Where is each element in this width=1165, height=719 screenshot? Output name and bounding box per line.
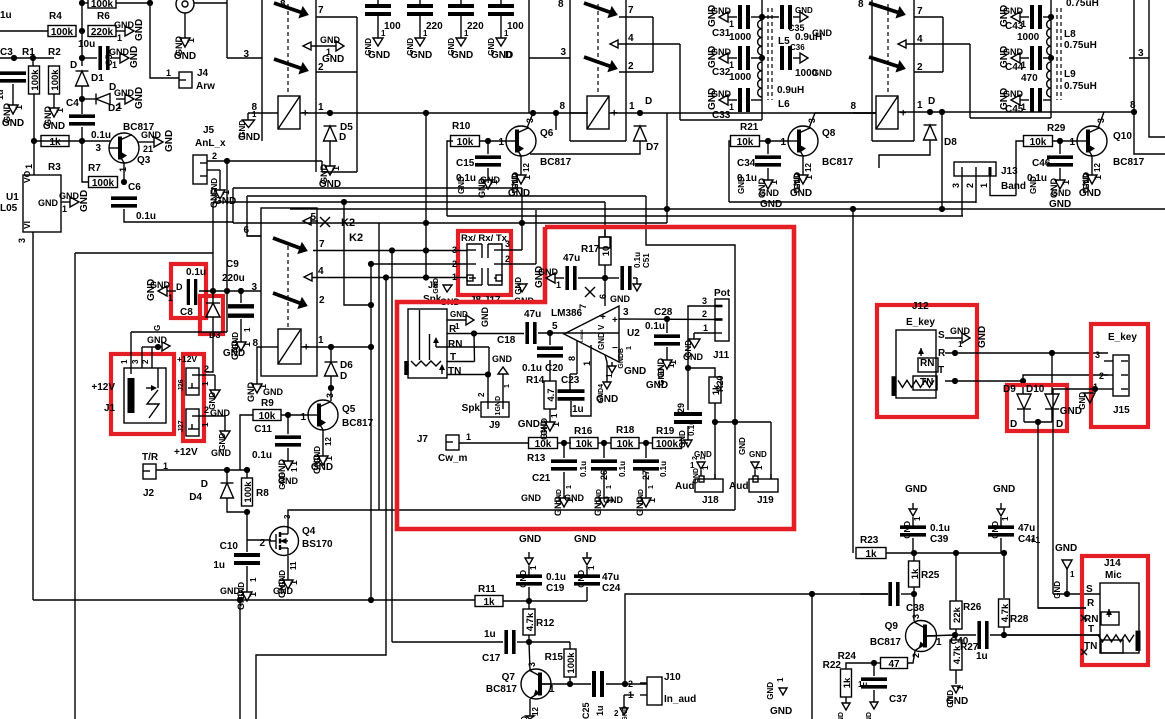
svg-text:GND: GND	[410, 50, 432, 61]
junction R3 node	[31, 138, 37, 144]
wire C25 left	[570, 683, 591, 685]
svg-text:BS170: BS170	[302, 539, 333, 550]
svg-text:D: D	[201, 479, 208, 490]
capacitor C39	[900, 523, 950, 545]
svg-text:GND: GND	[1055, 543, 1077, 554]
junction Q6 col node	[530, 110, 536, 116]
junction r18n	[643, 440, 649, 446]
capacitor C41	[988, 523, 1037, 545]
wire R10 right	[480, 140, 506, 142]
ground after R6	[114, 19, 145, 43]
svg-text:E_key: E_key	[906, 317, 935, 328]
svg-text:D: D	[1010, 419, 1017, 430]
relay K3 switch a	[584, 3, 634, 18]
pin box J6t	[599, 237, 610, 248]
svg-text:1: 1	[381, 29, 386, 38]
svg-text:J26: J26	[178, 379, 185, 391]
resistor R22	[823, 660, 874, 697]
svg-text:Aud: Aud	[729, 481, 748, 492]
wire R12 down	[528, 635, 530, 642]
svg-text:D1: D1	[91, 73, 104, 84]
resistor R21	[731, 122, 760, 148]
svg-text:1: 1	[780, 137, 786, 148]
svg-text:1: 1	[1070, 570, 1075, 579]
ground K2 coil	[246, 376, 284, 402]
svg-text:1: 1	[1061, 180, 1071, 185]
svg-text:GND: GND	[638, 489, 645, 505]
wire C39 drop	[912, 538, 914, 553]
svg-text:GND V: GND V	[597, 324, 606, 350]
ground R14	[518, 409, 561, 440]
svg-text:GND: GND	[43, 121, 65, 132]
wire J10 riser	[625, 594, 812, 683]
ground J9	[492, 354, 513, 415]
svg-text:C33: C33	[712, 110, 731, 121]
svg-text:GND: GND	[492, 354, 513, 364]
diode D8	[924, 125, 958, 148]
junction nr24	[871, 660, 877, 666]
wire J1 p1 riser	[226, 291, 228, 332]
svg-text:R18: R18	[616, 425, 635, 436]
wire U1 pin3 long	[32, 232, 34, 600]
svg-text:Q7: Q7	[502, 672, 516, 683]
svg-text:R16: R16	[574, 426, 593, 437]
diode D4	[189, 470, 233, 503]
wire bus GND d	[290, 208, 1165, 210]
svg-text:2: 2	[628, 679, 633, 689]
svg-text:100k: 100k	[566, 652, 577, 674]
wire J13 pin3	[961, 176, 963, 216]
inductor L6	[758, 62, 805, 110]
wire K1 pin1	[300, 112, 588, 114]
wire C17 right	[517, 641, 529, 643]
wire J13 pin1	[990, 176, 1016, 196]
svg-text:1: 1	[14, 105, 24, 110]
wire coax right	[194, 2, 227, 4]
wire J7 wire	[459, 442, 529, 444]
svg-text:GND: GND	[694, 450, 712, 459]
svg-text:RN: RN	[920, 358, 934, 369]
svg-text:D: D	[70, 60, 77, 71]
svg-text:GND: GND	[678, 430, 687, 448]
wire R29 left	[1016, 141, 1024, 196]
wire J17 pin3	[502, 249, 522, 251]
svg-text:R11: R11	[478, 584, 496, 595]
wire C18 right	[538, 332, 619, 334]
ground C19	[519, 552, 538, 588]
svg-text:GND: GND	[795, 6, 813, 15]
ground cap bank #1	[364, 22, 390, 61]
svg-text:6: 6	[243, 225, 249, 236]
svg-text:GND: GND	[457, 176, 466, 194]
jack J14 Mic	[1098, 558, 1139, 653]
relay K1 dashed link	[287, 4, 289, 92]
svg-text:GND: GND	[737, 176, 746, 194]
ground C28	[646, 347, 678, 391]
jack J6 labels	[448, 324, 462, 377]
wire R26 down	[955, 629, 957, 635]
svg-text:R15: R15	[545, 652, 564, 663]
svg-text:1u: 1u	[0, 10, 12, 21]
capacitor bank 220 #3	[448, 0, 484, 32]
wire col392	[391, 251, 393, 643]
junction x4	[1048, 55, 1054, 61]
resistor R15	[545, 642, 577, 677]
svg-text:GND: GND	[866, 712, 873, 719]
svg-text:D7: D7	[646, 142, 659, 153]
wire drop812	[811, 594, 813, 719]
svg-text:J9: J9	[489, 420, 501, 431]
junction n386-278	[383, 274, 389, 280]
svg-text:D10: D10	[1026, 384, 1045, 395]
relay K2 coil	[278, 329, 309, 364]
resistor R7	[88, 163, 118, 189]
resistor R16	[570, 426, 598, 450]
svg-text:GND: GND	[707, 5, 718, 27]
relay K2 switch b	[273, 293, 325, 309]
connector J13	[951, 162, 1026, 192]
junction r15n	[567, 681, 573, 687]
svg-text:Q6: Q6	[540, 128, 554, 139]
ground C21	[521, 472, 575, 516]
svg-text:R: R	[1087, 598, 1095, 609]
relay K3 switch b	[505, 0, 634, 113]
svg-text:GND: GND	[646, 380, 668, 391]
svg-text:GND: GND	[109, 47, 130, 57]
junction n605278	[602, 275, 608, 281]
svg-text:C51: C51	[642, 253, 651, 268]
svg-text:2: 2	[212, 151, 217, 161]
junction top node2	[147, 0, 153, 6]
ground J27	[199, 416, 232, 458]
svg-text:R2: R2	[48, 47, 61, 58]
junction n392-250	[389, 247, 395, 253]
junction R1 node	[30, 55, 36, 61]
junction nmic	[1064, 591, 1070, 597]
svg-text:220: 220	[426, 21, 443, 32]
svg-text:29: 29	[676, 403, 686, 413]
relay K2 frame	[261, 208, 317, 376]
svg-text:GND: GND	[574, 534, 596, 545]
svg-text:+12V: +12V	[91, 382, 115, 393]
transistor Q4 BS170	[259, 514, 333, 556]
svg-text:R10: R10	[452, 121, 471, 132]
wire D10 down	[1051, 409, 1053, 422]
ground under R2	[43, 94, 65, 132]
svg-text:Q8: Q8	[822, 128, 836, 139]
junction K1 D5 node	[327, 110, 333, 116]
svg-text:+12V: +12V	[174, 447, 198, 458]
label 8 top K3	[558, 0, 564, 10]
wire U1 pin1	[33, 141, 35, 175]
ground R22	[838, 697, 850, 719]
junction K4 riser node	[939, 109, 945, 115]
resistor R27	[947, 635, 979, 670]
wire riser 522	[521, 188, 523, 250]
svg-text:GND: GND	[766, 682, 775, 700]
junction opamp in node	[547, 330, 553, 336]
wire C41 drop	[1000, 538, 1002, 553]
junction R8-C10 node	[244, 509, 250, 515]
capacitor C15	[456, 141, 501, 184]
ground U2 pin4	[596, 355, 618, 405]
capacitor C40	[950, 621, 988, 662]
capacitor C31	[712, 5, 762, 43]
svg-text:1u: 1u	[213, 560, 225, 571]
junction r12n	[526, 639, 532, 645]
wire bus GND b	[247, 195, 646, 197]
wire opamp out	[619, 318, 715, 321]
svg-text:GND: GND	[903, 521, 912, 539]
svg-text:BC817: BC817	[342, 418, 374, 429]
relay K4 pin7 box	[914, 17, 943, 72]
svg-text:1: 1	[626, 346, 633, 350]
resistor R3	[41, 136, 69, 174]
resistor R10	[451, 121, 480, 148]
junction nD9	[1020, 378, 1026, 384]
capacitor C28	[645, 307, 680, 344]
ground C11	[277, 448, 299, 490]
svg-text:GND: GND	[950, 326, 971, 336]
relay K2 pin3	[251, 282, 257, 293]
ground C47	[534, 266, 564, 290]
ground Q8	[790, 156, 814, 199]
resistor R11	[475, 584, 503, 608]
svg-text:1: 1	[166, 68, 171, 78]
wire J15 p1	[1095, 388, 1104, 390]
wire bus GND a	[233, 187, 522, 189]
svg-text:GND: GND	[238, 132, 260, 143]
svg-text:5: 5	[310, 212, 316, 223]
svg-text:1: 1	[498, 137, 504, 148]
wire C24 drop	[586, 587, 588, 601]
resistor R12	[523, 601, 555, 635]
svg-text:47: 47	[888, 659, 900, 670]
svg-text:Q9: Q9	[885, 621, 899, 632]
junction n371-305	[368, 302, 374, 308]
svg-text:1: 1	[629, 101, 635, 112]
svg-text:AnL_x: AnL_x	[195, 138, 226, 149]
svg-text:3: 3	[702, 296, 707, 306]
ground C26	[564, 472, 615, 516]
svg-text:D: D	[339, 132, 346, 143]
wire mic T wire	[1004, 634, 1100, 636]
ground C34	[737, 168, 780, 198]
svg-text:GND: GND	[1049, 199, 1071, 210]
svg-text:J1: J1	[104, 403, 116, 414]
wire D9 riser	[1022, 381, 1024, 394]
jack J12 contacts	[913, 330, 946, 390]
svg-text:C18: C18	[497, 335, 516, 346]
svg-text:D: D	[176, 282, 183, 292]
svg-text:2: 2	[702, 309, 707, 319]
wire R24 left	[874, 662, 880, 664]
label 8 right	[1130, 100, 1136, 111]
svg-text:1k: 1k	[49, 137, 61, 148]
wire D7 down	[530, 141, 640, 154]
svg-text:D: D	[340, 371, 347, 382]
junction nr25	[911, 550, 917, 556]
svg-text:3: 3	[95, 143, 101, 154]
wire Q9 base lead	[925, 635, 955, 636]
junction r16n	[601, 440, 607, 446]
capacitor bank 220 #2	[407, 0, 443, 32]
svg-text:1: 1	[55, 108, 65, 113]
svg-text:3: 3	[560, 47, 566, 58]
wire bus GND c	[213, 201, 605, 203]
svg-text:+12V: +12V	[177, 354, 197, 364]
svg-text:GND: GND	[624, 366, 646, 377]
svg-text:7: 7	[578, 304, 588, 309]
connector J17	[488, 244, 502, 285]
ground cap bank #4	[487, 22, 513, 61]
junction n735b	[732, 419, 738, 425]
inductor L8	[1047, 20, 1097, 55]
transistor Q8	[780, 118, 853, 168]
ground C51	[610, 278, 641, 304]
diode D2	[82, 82, 121, 114]
capacitor C11	[252, 415, 301, 461]
svg-text:4: 4	[917, 34, 923, 45]
svg-text:GND: GND	[246, 382, 256, 403]
svg-text:3: 3	[527, 662, 537, 667]
ground U2 gnd	[608, 346, 646, 377]
wire mic S wire	[1053, 593, 1100, 595]
svg-text:7: 7	[318, 5, 324, 16]
edge text c25gnd	[614, 709, 619, 718]
svg-text:J27: J27	[178, 420, 185, 432]
ground C15	[457, 168, 501, 198]
wire R29 right	[1053, 140, 1077, 142]
ground C33	[707, 88, 737, 112]
connector J11 Pot	[702, 288, 731, 361]
junction pot node	[685, 365, 691, 371]
svg-text:TN: TN	[920, 377, 933, 388]
label +12V bottom	[174, 447, 198, 458]
svg-text:U2: U2	[627, 328, 640, 339]
svg-text:J13: J13	[1001, 166, 1018, 177]
svg-text:8: 8	[559, 101, 565, 112]
junction C28 node	[664, 316, 670, 322]
transistor Q5	[300, 393, 373, 430]
J17 pins	[505, 239, 510, 264]
ground coax	[174, 13, 196, 62]
wire D6 down	[330, 376, 332, 401]
svg-text:1: 1	[252, 110, 257, 119]
wire row253	[75, 252, 213, 254]
svg-text:2: 2	[477, 392, 486, 397]
svg-text:1: 1	[913, 516, 922, 521]
svg-text:Q4: Q4	[302, 526, 316, 537]
jack J14 contacts	[1081, 584, 1123, 655]
svg-text:4: 4	[318, 266, 324, 277]
ground C10	[220, 566, 258, 610]
svg-text:GND: GND	[223, 348, 245, 359]
svg-text:GND: GND	[977, 326, 988, 348]
svg-text:1k: 1k	[865, 549, 877, 560]
ground U1	[59, 190, 90, 214]
relay K4 pin8	[850, 101, 876, 113]
capacitor C34	[737, 141, 781, 184]
red highlight J12	[877, 305, 977, 417]
ground C29	[684, 426, 707, 470]
svg-text:3: 3	[243, 49, 249, 60]
svg-text:BC817: BC817	[540, 157, 572, 168]
wire bus riser 247	[247, 196, 261, 236]
wire C5 wire	[82, 57, 97, 59]
svg-text:1: 1	[605, 373, 614, 378]
svg-text:1: 1	[117, 33, 122, 43]
resistor R17	[581, 230, 612, 265]
svg-text:C4: C4	[66, 98, 79, 109]
junction K2 riser node	[341, 199, 347, 205]
svg-text:BC817: BC817	[1113, 157, 1145, 168]
capacitor C20	[522, 333, 564, 374]
svg-text:GND: GND	[147, 335, 168, 345]
wire R20 link	[688, 368, 715, 377]
relay K4 coil	[876, 96, 906, 129]
resistor R6	[88, 11, 116, 38]
junction J6 TN node	[485, 371, 491, 377]
wire R15 feed	[529, 641, 570, 643]
junction Q8 base node	[765, 138, 771, 144]
svg-text:+: +	[612, 315, 618, 326]
connector P1 coax	[176, 0, 194, 13]
svg-text:2: 2	[628, 61, 634, 72]
svg-text:GND: GND	[905, 484, 927, 495]
svg-text:4.7: 4.7	[546, 388, 557, 401]
svg-text:47u: 47u	[1018, 523, 1035, 534]
junction n522	[519, 220, 525, 226]
svg-text:1: 1	[804, 175, 814, 180]
svg-text:1: 1	[556, 280, 561, 290]
svg-text:D4: D4	[189, 492, 202, 503]
relay K2 dashed	[287, 246, 289, 327]
svg-text:GND: GND	[114, 88, 135, 98]
wire mic R wire	[1038, 607, 1086, 609]
svg-text:R14: R14	[526, 375, 545, 386]
capacitor C26	[591, 443, 627, 480]
svg-text:1: 1	[755, 465, 764, 470]
svg-text:1: 1	[168, 293, 173, 303]
junction r11n	[526, 598, 532, 604]
wire R15 down	[569, 677, 571, 684]
relay K4 switch a	[869, 3, 923, 18]
junction Q3 base node	[79, 138, 85, 144]
junction J1 gnd node	[155, 344, 161, 350]
relay K4 switch b	[869, 57, 923, 73]
svg-text:+: +	[900, 108, 906, 120]
svg-text:100: 100	[507, 21, 524, 32]
svg-text:C21: C21	[532, 473, 551, 484]
junction x3	[1048, 14, 1054, 20]
svg-text:3: 3	[1095, 350, 1100, 360]
svg-text:1: 1	[729, 60, 734, 70]
relay K1 switch a	[274, 3, 324, 18]
svg-text:GND: GND	[134, 87, 145, 109]
svg-text:1: 1	[936, 637, 942, 648]
junction n715	[712, 419, 718, 425]
junction relay2 pin8 node	[553, 110, 559, 130]
resistor R8	[242, 470, 270, 506]
svg-text:In_aud: In_aud	[664, 694, 696, 705]
svg-text:1: 1	[117, 101, 122, 111]
wire pot p3 feed	[688, 306, 715, 368]
svg-text:0.1u: 0.1u	[136, 211, 156, 222]
svg-text:Band: Band	[1001, 181, 1026, 192]
ground C36	[800, 53, 833, 78]
xfmr core	[768, 8, 772, 100]
